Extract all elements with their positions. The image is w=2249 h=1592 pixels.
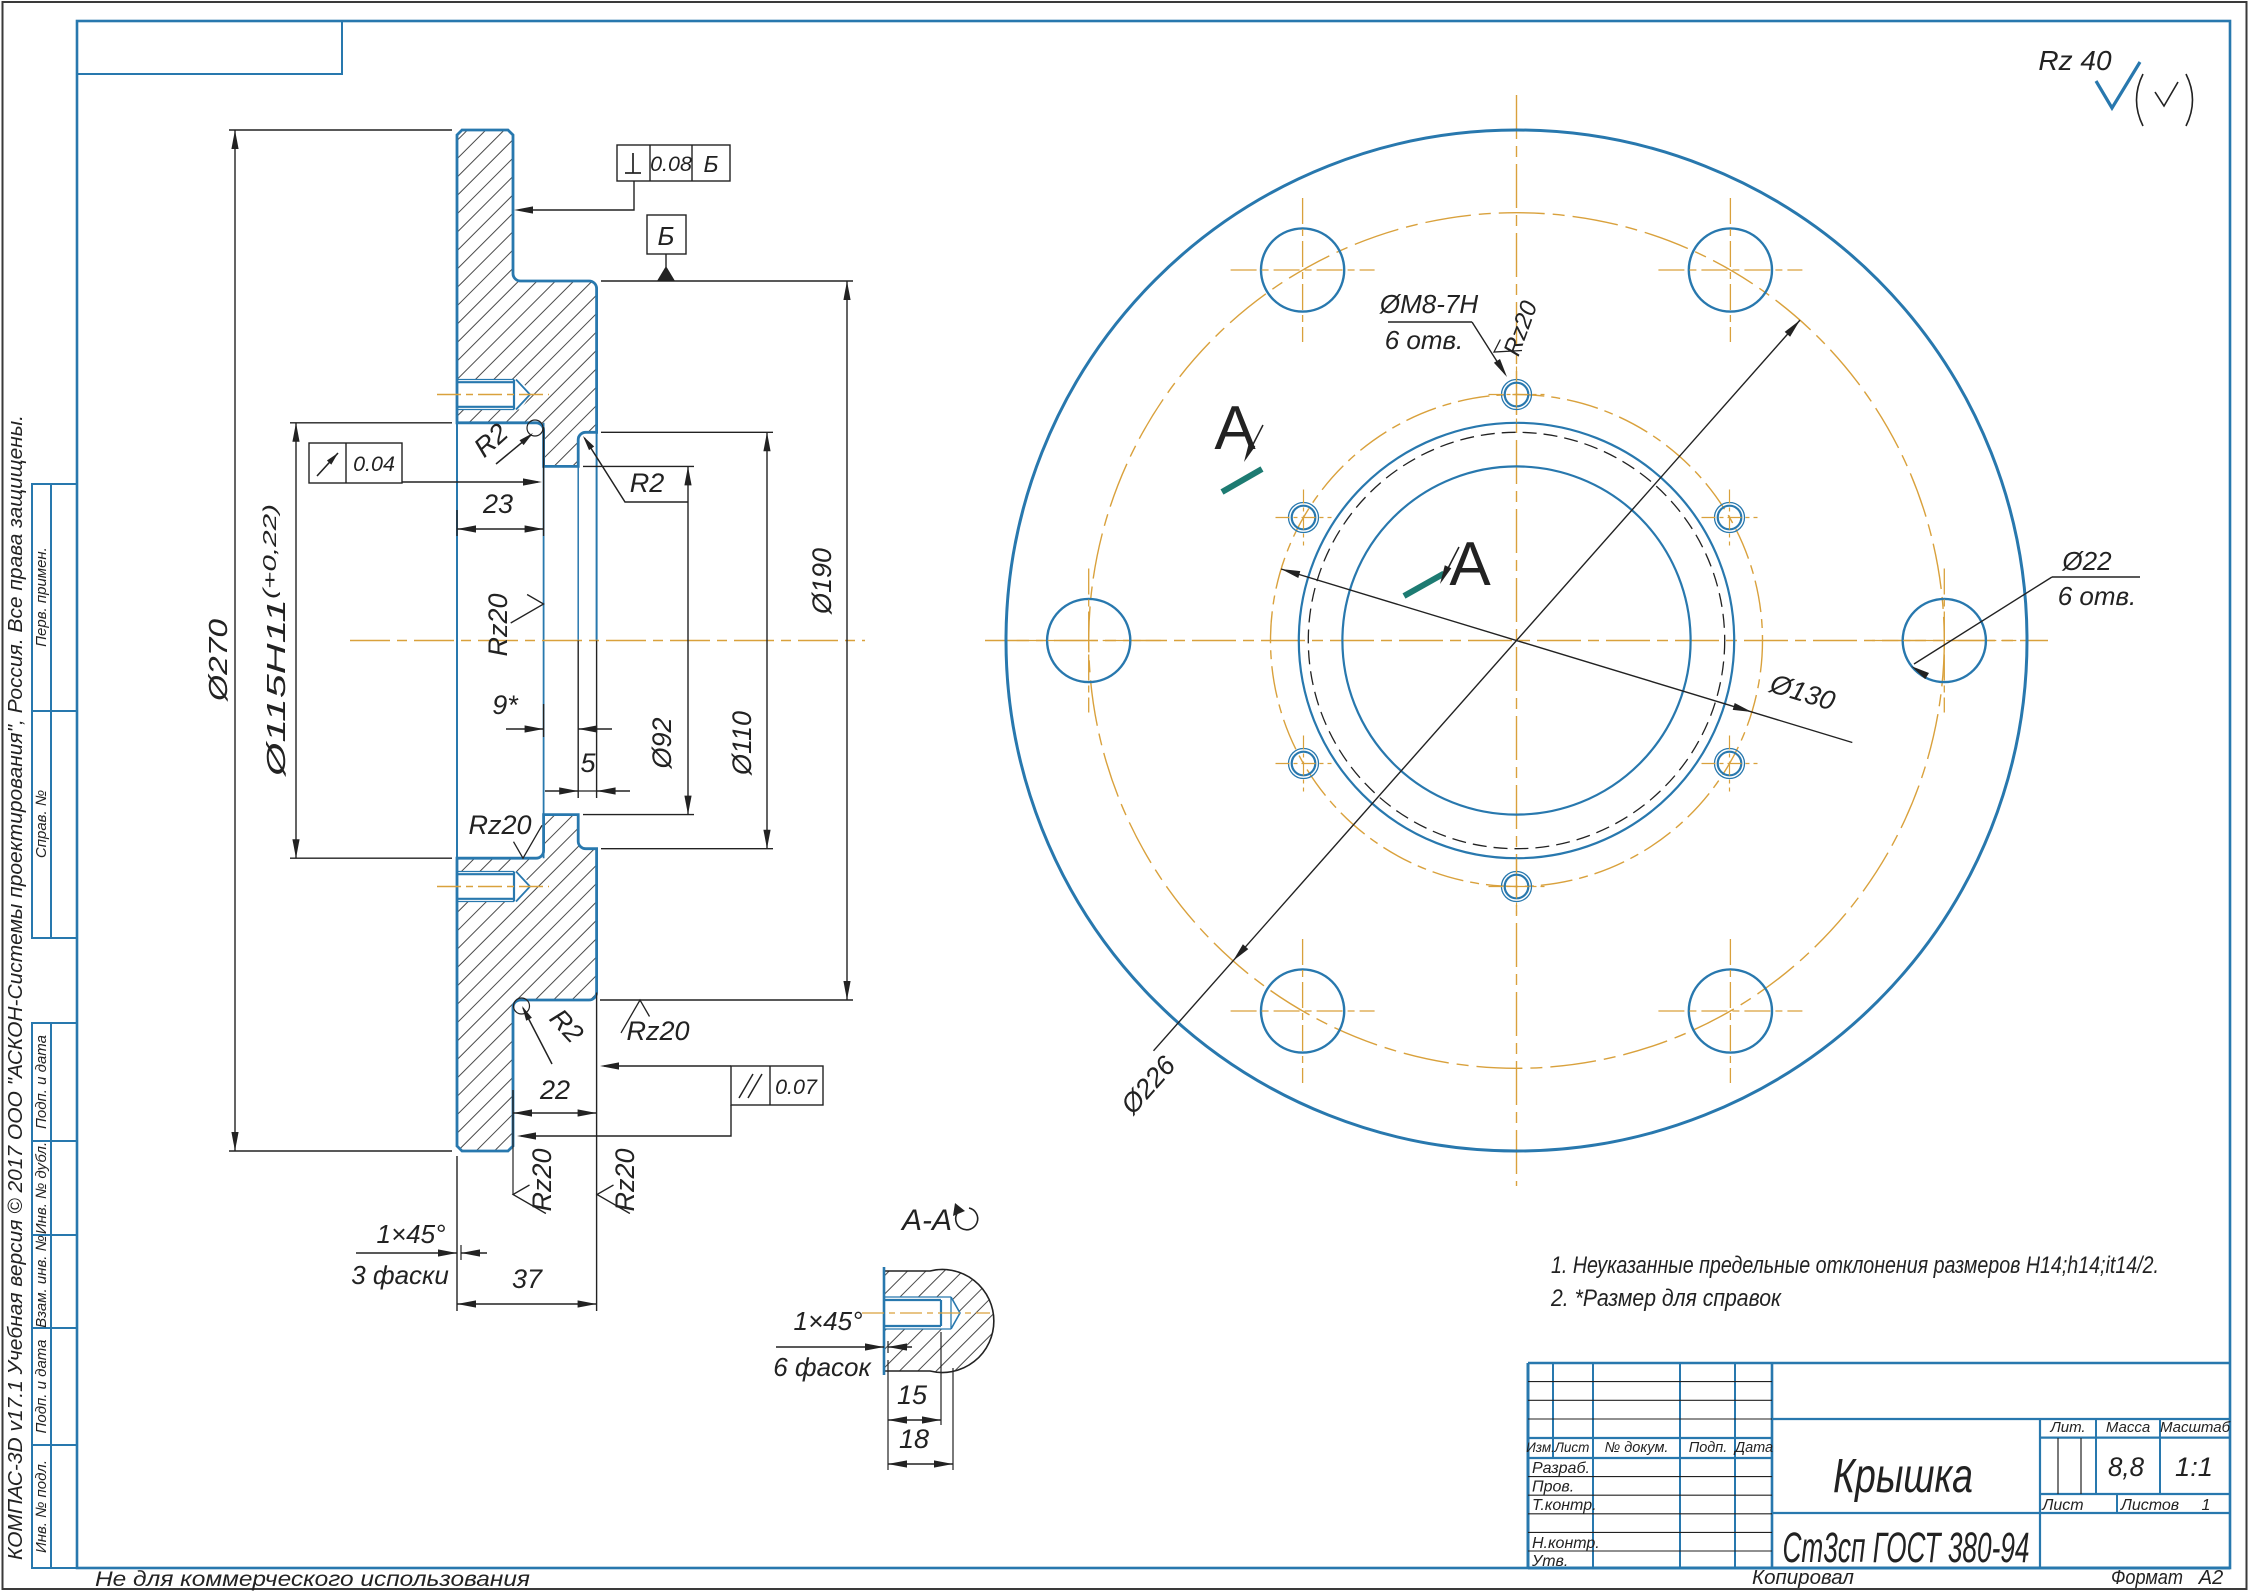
svg-text:Утв.: Утв. [1531,1553,1568,1570]
svg-text:6 отв.: 6 отв. [1385,325,1464,355]
svg-text:8,8: 8,8 [2108,1452,2144,1482]
svg-text:Подп. и дата: Подп. и дата [33,1340,50,1434]
svg-text:2. *Размер для справок: 2. *Размер для справок [1550,1285,1782,1312]
svg-text:А: А [1449,530,1491,599]
svg-text:Формат: Формат [2111,1567,2183,1589]
svg-text:1: 1 [2202,1497,2211,1514]
svg-text:КОМПАС-3D v17.1 Учебная версия: КОМПАС-3D v17.1 Учебная версия © 2017 ОО… [5,415,27,1560]
svg-text:Пров.: Пров. [1532,1479,1574,1496]
svg-text:Rz20: Rz20 [626,1016,689,1046]
svg-text:Rz20: Rz20 [468,810,531,840]
svg-text:3 фаски: 3 фаски [351,1260,449,1290]
svg-text:Перв. примен.: Перв. примен. [33,547,50,647]
svg-text:Ø270: Ø270 [203,618,233,702]
svg-text:Справ. №: Справ. № [33,790,50,858]
svg-text:А: А [1214,394,1256,463]
svg-text:Ø190: Ø190 [807,548,837,615]
svg-text:1:1: 1:1 [2175,1452,2213,1482]
svg-text:Изм.: Изм. [1526,1440,1555,1455]
svg-text:Листов: Листов [2120,1497,2179,1514]
svg-text:5: 5 [580,748,596,778]
svg-text:Б: Б [658,221,675,251]
svg-text:Ст3сп ГОСТ 380-94: Ст3сп ГОСТ 380-94 [1783,1524,2030,1572]
svg-text:Ø92: Ø92 [647,717,677,769]
svg-text:Подп.: Подп. [1689,1440,1728,1456]
svg-text:Взам. инв. №: Взам. инв. № [33,1235,50,1328]
svg-text:Масштаб: Масштаб [2160,1419,2231,1436]
svg-text:6 фасок: 6 фасок [773,1352,872,1382]
svg-text:Дата: Дата [1733,1440,1773,1456]
svg-text:R2: R2 [630,468,665,498]
svg-text:0.07: 0.07 [775,1075,818,1099]
svg-text:Rz20: Rz20 [527,1148,557,1211]
svg-text:Rz 40: Rz 40 [2038,45,2112,76]
svg-text:Ø110: Ø110 [727,711,757,776]
svg-text:А2: А2 [2198,1567,2223,1589]
svg-text:Инв. № подл.: Инв. № подл. [33,1460,50,1553]
svg-text:37: 37 [512,1264,543,1294]
svg-text:Масса: Масса [2106,1419,2150,1436]
svg-text:18: 18 [899,1424,929,1454]
svg-text:Лист: Лист [2041,1497,2083,1514]
svg-text:Разраб.: Разраб. [1532,1460,1590,1477]
svg-text:23: 23 [482,489,513,519]
svg-text:Rz20: Rz20 [610,1148,640,1211]
svg-text:ØM8-7H: ØM8-7H [1379,289,1478,319]
svg-text:Лит.: Лит. [2049,1419,2085,1436]
svg-text:1. Неуказанные предельные отк: 1. Неуказанные предельные отклонения раз… [1551,1252,2159,1279]
svg-text:Подп. и дата: Подп. и дата [33,1035,50,1129]
svg-text:9*: 9* [492,690,519,720]
svg-text:1×45°: 1×45° [794,1306,863,1336]
svg-text:1×45°: 1×45° [377,1219,446,1249]
svg-text:Ø22: Ø22 [2061,546,2112,576]
svg-text:А-А: А-А [900,1204,952,1237]
svg-text:Инв. № дубл.: Инв. № дубл. [33,1142,50,1234]
svg-text:Не для коммерческого использов: Не для коммерческого использования [95,1568,530,1591]
svg-text:Т.контр.: Т.контр. [1532,1497,1597,1514]
svg-text:Б: Б [704,151,719,177]
svg-text:0.08: 0.08 [650,152,692,176]
svg-text:№ докум.: № докум. [1605,1440,1669,1456]
svg-text:Лист: Лист [1554,1440,1590,1455]
svg-text:15: 15 [897,1380,928,1410]
svg-text:Н.контр.: Н.контр. [1532,1535,1600,1552]
svg-text:Крышка: Крышка [1833,1450,1973,1503]
svg-text:0.04: 0.04 [353,452,395,476]
svg-text:Rz20: Rz20 [483,593,513,656]
svg-text:6 отв.: 6 отв. [2058,581,2137,611]
svg-text:22: 22 [539,1075,570,1105]
